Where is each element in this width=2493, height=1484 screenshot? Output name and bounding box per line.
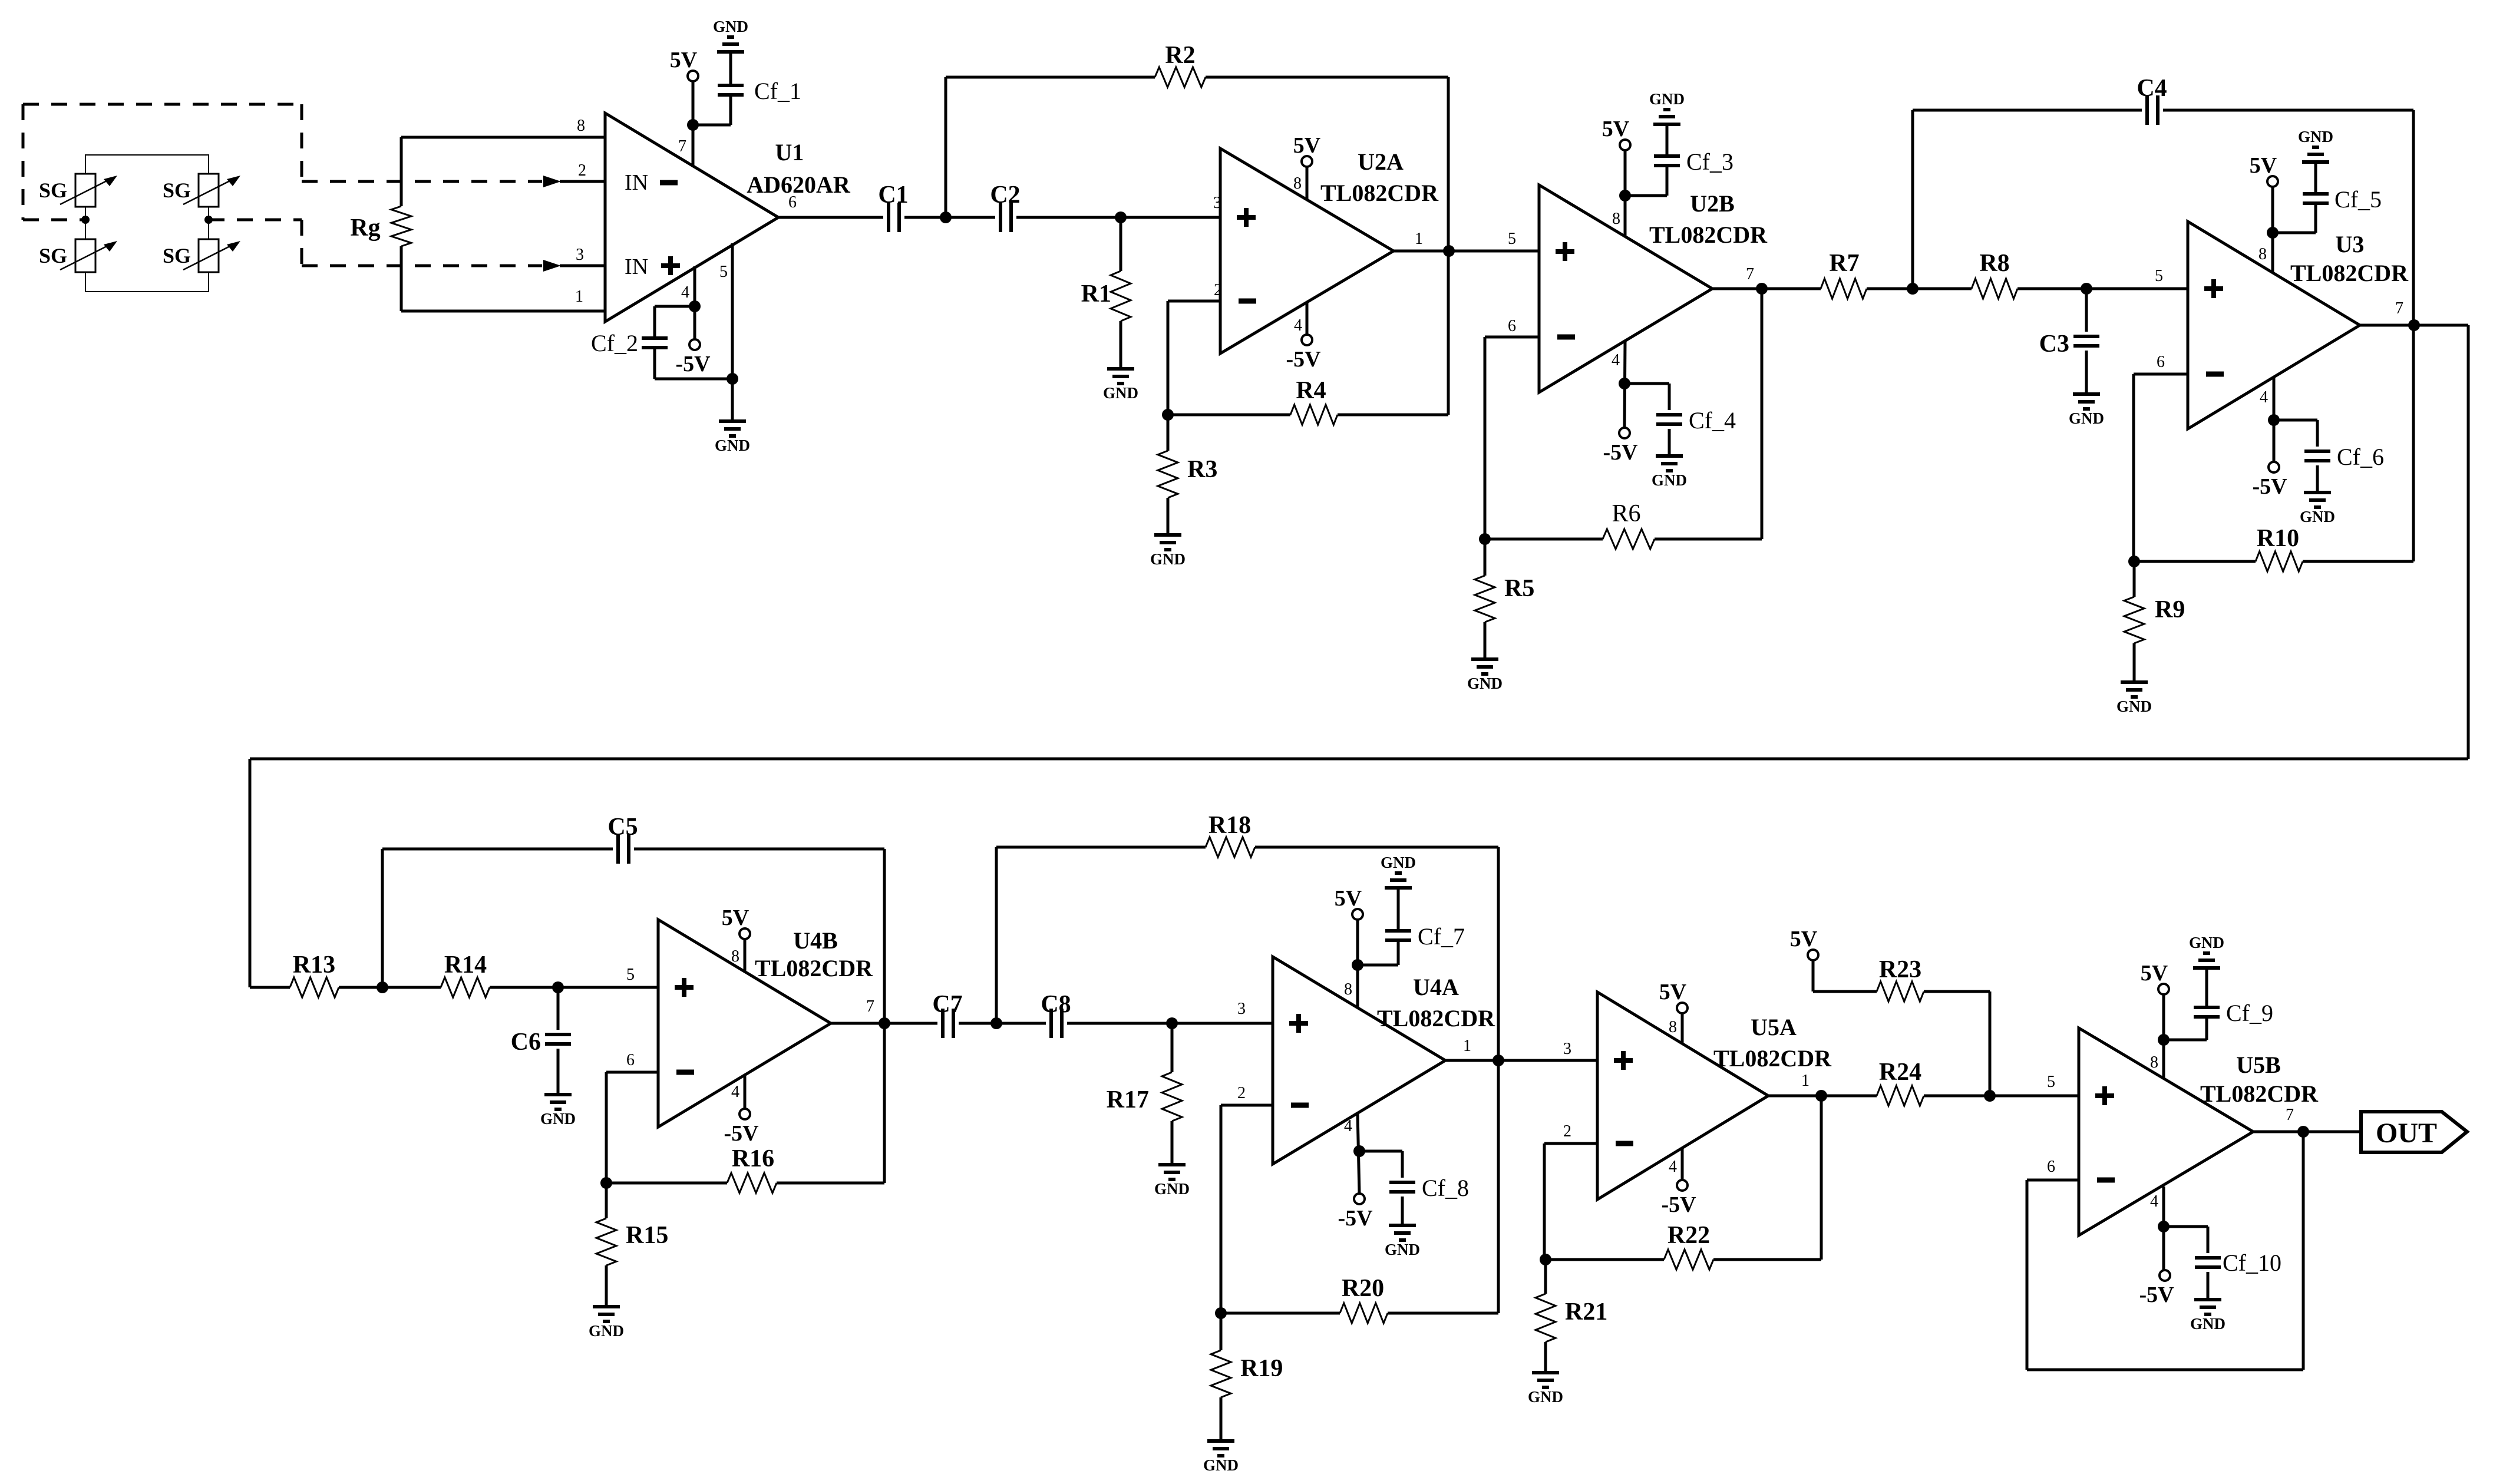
svg-text:R23: R23 [1879, 956, 1921, 983]
pin 1 label [1415, 230, 1423, 248]
-5V supply (U2B) [1603, 428, 1638, 465]
wire (U2A out) [1394, 250, 1539, 253]
svg-text:U5A: U5A [1751, 1014, 1797, 1040]
-5V supply (U1) [675, 339, 711, 376]
resistor R19 [1211, 1313, 1283, 1441]
resistor R17 [1107, 1023, 1182, 1165]
op-amp U4B TL082CDR [658, 920, 873, 1127]
strain gauge SG (bottom-left) [39, 239, 117, 272]
ground (U1) [715, 421, 750, 454]
pin 8 label [2258, 245, 2267, 263]
svg-text:5: 5 [719, 263, 728, 281]
svg-text:5V: 5V [2141, 961, 2168, 986]
node (U2A out) [1443, 245, 1455, 257]
node (U3 V+) [2267, 227, 2279, 239]
svg-text:C1: C1 [878, 181, 908, 209]
wire [558, 986, 658, 989]
svg-text:4: 4 [2150, 1192, 2158, 1211]
pin 8 label [731, 947, 739, 966]
U4B pin 4 wire [744, 1076, 747, 1109]
svg-text:IN: IN [625, 255, 648, 279]
op-amp U4A TL082CDR [1273, 957, 1495, 1164]
svg-text:GND: GND [1649, 90, 1685, 108]
svg-text:R16: R16 [732, 1145, 774, 1172]
svg-text:4: 4 [1294, 316, 1302, 335]
U2A pin 8 wire [1306, 167, 1309, 200]
node (U2B V+) [1619, 190, 1631, 201]
ground (R17) [1154, 1165, 1190, 1198]
svg-text:4: 4 [1344, 1117, 1352, 1135]
svg-text:U4A: U4A [1413, 974, 1459, 1000]
svg-text:GND: GND [1652, 471, 1687, 489]
svg-text:8: 8 [1612, 210, 1620, 228]
pin 6 label [626, 1051, 635, 1069]
node C [1166, 1017, 1178, 1029]
U5B pin 8 wire [2162, 994, 2165, 1079]
node (C3 tap) [2081, 283, 2092, 295]
svg-text:4: 4 [681, 283, 689, 302]
wire (U4A out) [1445, 1059, 1597, 1062]
svg-text:-5V: -5V [1286, 347, 1321, 372]
svg-text:7: 7 [866, 997, 874, 1016]
ground (R19) [1203, 1441, 1239, 1474]
svg-text:8: 8 [731, 947, 739, 966]
node (C5 tap) [377, 981, 388, 993]
pin 2 label [1563, 1122, 1571, 1141]
svg-text:C4: C4 [2137, 75, 2167, 102]
svg-text:GND: GND [1154, 1180, 1190, 1198]
svg-text:GND: GND [1528, 1388, 1563, 1406]
pin 5 label [719, 263, 728, 281]
svg-text:Cf_8: Cf_8 [1422, 1175, 1469, 1201]
svg-text:C8: C8 [1041, 991, 1071, 1018]
svg-text:GND: GND [1385, 1241, 1420, 1258]
pin 4 label [1294, 316, 1302, 335]
svg-text:R24: R24 [1879, 1059, 1921, 1086]
pin 3 label [1237, 1000, 1246, 1018]
svg-text:8: 8 [2150, 1053, 2158, 1072]
wire (U1 out) [778, 216, 883, 219]
svg-text:Cf_6: Cf_6 [2337, 444, 2384, 470]
node (bridge left mid) [81, 216, 90, 224]
-5V supply (U4B) [724, 1109, 759, 1146]
svg-text:AD620AR: AD620AR [747, 171, 851, 198]
resistor R2 [946, 42, 1448, 251]
wire [1990, 1095, 2079, 1098]
node (U4A V-) [1353, 1145, 1365, 1157]
node (U4B out) [879, 1017, 890, 1029]
svg-text:1: 1 [575, 287, 583, 306]
svg-text:5V: 5V [1659, 980, 1687, 1004]
-5V supply (U3) [2252, 462, 2287, 499]
dashed wire IN- with arrow [302, 176, 605, 187]
5V supply (R23) [1790, 927, 1818, 960]
U4B pin 8 wire [744, 939, 747, 971]
pin 4 label [2150, 1192, 2158, 1211]
pin 4 label [1344, 1117, 1352, 1135]
svg-text:R19: R19 [1240, 1355, 1283, 1382]
U2A pin 2 wire [1168, 301, 1220, 415]
svg-text:TL082CDR: TL082CDR [1649, 222, 1768, 248]
svg-text:GND: GND [1467, 675, 1503, 692]
svg-text:Rg: Rg [350, 214, 380, 242]
svg-text:U5B: U5B [2236, 1052, 2281, 1078]
node (U1 V+) [687, 119, 699, 131]
node (U3 V-) [2268, 414, 2280, 426]
svg-text:R6: R6 [1612, 500, 1640, 527]
wire (U1 to ground) [731, 379, 734, 421]
U5A pin 2 wire [1544, 1143, 1597, 1260]
svg-text:R22: R22 [1667, 1222, 1710, 1249]
svg-text:GND: GND [2069, 409, 2104, 427]
pin 8 label [1612, 210, 1620, 228]
pin 8 label [1669, 1018, 1677, 1036]
pin 6 label [2047, 1158, 2055, 1176]
svg-text:Cf_4: Cf_4 [1689, 407, 1736, 434]
pin 2 label [578, 161, 586, 180]
svg-text:Cf_1: Cf_1 [754, 78, 801, 104]
svg-text:5V: 5V [1335, 886, 1362, 911]
svg-text:GND: GND [715, 437, 750, 454]
svg-text:7: 7 [2286, 1106, 2294, 1124]
resistor R21 [1536, 1260, 1607, 1373]
wire (pin 8 loop top) [401, 136, 605, 139]
capacitor C2 [990, 181, 1020, 232]
svg-text:C6: C6 [511, 1029, 541, 1056]
svg-text:U2B: U2B [1690, 190, 1735, 217]
node (R23/R24) [1984, 1090, 1996, 1102]
pin 7 label [2286, 1106, 2294, 1124]
5V supply (U2A) [1293, 133, 1321, 167]
-5V supply (U5B) [2139, 1270, 2174, 1307]
op-amp U5B TL082CDR [2079, 1028, 2319, 1235]
svg-text:8: 8 [2258, 245, 2267, 263]
capacitor C1 [878, 181, 908, 232]
pin 7 label [2395, 299, 2403, 318]
node (U2B V-) [1619, 378, 1630, 389]
svg-text:Cf_2: Cf_2 [591, 330, 638, 356]
svg-text:Cf_5: Cf_5 [2334, 186, 2382, 213]
resistor R23 [1813, 956, 1990, 1096]
svg-text:2: 2 [1214, 281, 1222, 299]
wire (U4B out) [831, 1022, 937, 1025]
wire (U3 out to row 2) [250, 325, 2468, 987]
capacitor Cf_1 [718, 78, 801, 104]
U2B pin 4 wire [1624, 342, 1625, 428]
pin 6 label [2157, 353, 2165, 371]
ground (Cf_4) [1652, 456, 1687, 489]
svg-text:4: 4 [731, 1083, 739, 1101]
capacitor C8 [1041, 991, 1071, 1038]
capacitor Cf_3 [1625, 124, 1733, 196]
resistor R5 [1475, 539, 1534, 659]
svg-text:TL082CDR: TL082CDR [2200, 1080, 2319, 1107]
node (U1 pin4) [689, 300, 701, 312]
U2A pin 4 wire [1306, 302, 1309, 335]
resistor R10 [2134, 325, 2413, 571]
node (C6 tap) [552, 981, 564, 993]
pin 1 label [1801, 1072, 1810, 1090]
svg-text:4: 4 [2260, 388, 2268, 406]
resistor R3 [1158, 415, 1217, 535]
svg-text:SG: SG [39, 179, 67, 202]
U5B pin 6 wire [2027, 1132, 2303, 1370]
ground (C3) [2069, 394, 2104, 427]
svg-text:8: 8 [1344, 980, 1352, 999]
svg-text:U1: U1 [775, 139, 804, 166]
-5V supply (U5A) [1661, 1180, 1696, 1217]
svg-text:U3: U3 [2336, 231, 2365, 257]
dashed wire IN+ with arrow [302, 260, 605, 272]
wire [2086, 287, 2188, 290]
5V supply (U3) [2250, 153, 2278, 187]
wire (pin 1 loop bottom) [401, 310, 605, 313]
strain gauge SG (top-left) [39, 174, 117, 207]
wire (to OUT) [2253, 1131, 2361, 1133]
svg-text:TL082CDR: TL082CDR [1320, 180, 1439, 206]
U4B pin 6 wire [606, 1072, 658, 1183]
5V supply (U5A) [1659, 980, 1688, 1013]
5V supply (U5B) [2141, 961, 2169, 994]
pin 7 label [678, 137, 686, 156]
capacitor Cf_7 [1358, 888, 1465, 965]
capacitor Cf_6 [2274, 420, 2384, 493]
svg-text:R8: R8 [1979, 250, 2009, 277]
U1 pin 7 wire [692, 76, 695, 167]
wire (U2B out) [1712, 287, 1821, 290]
U3 pin 4 wire [2273, 377, 2276, 462]
U2B pin 6 wire [1485, 337, 1539, 539]
svg-text:GND: GND [540, 1110, 576, 1128]
resistor R14 [382, 951, 558, 997]
op-amp U2A TL082CDR [1220, 148, 1439, 353]
svg-text:R20: R20 [1342, 1275, 1384, 1302]
pin 4 label [681, 283, 689, 302]
node (R19/R20) [1215, 1307, 1227, 1319]
resistor R22 [1546, 1222, 1821, 1270]
pin 3 label [1213, 194, 1221, 212]
capacitor Cf_10 [2164, 1227, 2281, 1300]
svg-text:2: 2 [578, 161, 586, 180]
resistor R4 [1168, 251, 1448, 425]
-5V supply (U2A) [1286, 335, 1321, 372]
U5A pin 4 wire [1681, 1148, 1684, 1180]
svg-text:R7: R7 [1829, 250, 1859, 277]
svg-text:6: 6 [626, 1051, 635, 1069]
bridge frame [85, 155, 209, 292]
svg-text:8: 8 [1293, 174, 1302, 193]
svg-text:1: 1 [1415, 230, 1423, 248]
OUT port flag [2361, 1112, 2467, 1152]
U4A pin 4 wire [1358, 1113, 1359, 1194]
node (R15/R16) [600, 1177, 612, 1189]
pin 8 label [1293, 174, 1302, 193]
svg-text:5V: 5V [1790, 927, 1818, 951]
strain gauge SG (top-right) [163, 174, 240, 207]
svg-text:2: 2 [1563, 1122, 1571, 1141]
ground (Cf_6) [2300, 493, 2335, 525]
capacitor Cf_4 [1624, 384, 1736, 456]
ground (Cf_5) [2298, 128, 2333, 162]
svg-text:-5V: -5V [1338, 1206, 1373, 1231]
svg-text:6: 6 [788, 193, 797, 211]
node (R9/R10) [2128, 556, 2140, 567]
svg-text:TL082CDR: TL082CDR [1713, 1045, 1832, 1072]
ground (R15) [589, 1307, 624, 1340]
resistor R13 [250, 951, 382, 997]
ground (R1) [1103, 369, 1138, 402]
wire (to Cf_1) [693, 52, 731, 125]
svg-text:5V: 5V [722, 905, 749, 930]
capacitor Cf_8 [1359, 1151, 1469, 1225]
svg-text:7: 7 [1746, 265, 1754, 283]
node A [940, 211, 952, 223]
pin 4 label [1612, 351, 1620, 369]
svg-text:-5V: -5V [675, 352, 711, 376]
svg-text:R3: R3 [1187, 456, 1217, 483]
resistor Rg [350, 137, 411, 311]
svg-text:U2A: U2A [1358, 148, 1404, 175]
svg-text:R9: R9 [2155, 596, 2185, 623]
svg-text:GND: GND [2300, 508, 2335, 525]
op-amp U5A TL082CDR [1597, 992, 1832, 1199]
node (U5B out) [2297, 1126, 2309, 1138]
ground (Cf_10) [2190, 1300, 2225, 1333]
svg-text:-5V: -5V [1603, 440, 1638, 465]
pin 3 label [1563, 1040, 1571, 1058]
svg-text:5V: 5V [670, 48, 698, 72]
capacitor C4 [1913, 75, 2413, 325]
svg-text:R10: R10 [2257, 525, 2299, 552]
pin 4 label [1669, 1158, 1677, 1176]
resistor R18 [996, 812, 1498, 1060]
svg-text:C3: C3 [2039, 330, 2069, 358]
svg-text:SG: SG [163, 179, 191, 202]
svg-text:R4: R4 [1296, 377, 1326, 404]
5V supply (U4A) [1335, 886, 1363, 920]
ground (C6) [540, 1095, 576, 1128]
svg-text:IN: IN [625, 170, 648, 195]
svg-text:R14: R14 [444, 951, 487, 979]
svg-text:6: 6 [2047, 1158, 2055, 1176]
U3 pin 8 wire [2271, 187, 2274, 273]
pin 3 label [576, 246, 584, 264]
U5B pin 4 wire [2162, 1186, 2165, 1270]
svg-text:U4B: U4B [793, 927, 838, 954]
wire [959, 1022, 1046, 1025]
pin 2 label [1214, 281, 1222, 299]
pin 5 label [2047, 1073, 2055, 1091]
pin 2 label [1237, 1084, 1246, 1102]
svg-text:3: 3 [1563, 1040, 1571, 1058]
resistor R7 [1821, 250, 1913, 299]
svg-text:5V: 5V [2250, 153, 2277, 178]
svg-text:R5: R5 [1504, 575, 1534, 602]
op-amp U3 TL082CDR [2188, 222, 2409, 429]
svg-text:4: 4 [1669, 1158, 1677, 1176]
pin 7 label [1746, 265, 1754, 283]
capacitor C6 [511, 987, 571, 1095]
resistor R8 [1913, 250, 2086, 299]
svg-text:R17: R17 [1107, 1086, 1149, 1113]
pin 1 label [1463, 1037, 1471, 1055]
wire [1067, 1022, 1273, 1025]
op-amp U1 AD620AR [605, 113, 851, 322]
svg-text:R21: R21 [1565, 1298, 1607, 1326]
resistor R15 [596, 1183, 668, 1307]
node (C4 tap) [1907, 283, 1919, 295]
U1 pin 5 wire [731, 243, 734, 379]
svg-text:5: 5 [2047, 1073, 2055, 1091]
svg-text:TL082CDR: TL082CDR [1377, 1005, 1495, 1032]
svg-text:8: 8 [577, 117, 585, 135]
svg-text:R18: R18 [1208, 812, 1251, 839]
ground (Cf_3) [1649, 90, 1685, 124]
node (U4A out) [1493, 1055, 1504, 1066]
svg-text:6: 6 [1508, 317, 1516, 335]
svg-text:GND: GND [1203, 1456, 1239, 1474]
wire [1016, 216, 1220, 219]
U2B pin 8 wire [1624, 150, 1627, 237]
node (bridge right mid) [204, 216, 213, 224]
svg-text:R15: R15 [626, 1222, 668, 1249]
svg-text:5V: 5V [1293, 133, 1321, 158]
svg-text:GND: GND [1381, 854, 1416, 871]
node (R3/R4) [1162, 409, 1174, 421]
svg-text:GND: GND [2116, 698, 2152, 715]
U5A pin 8 wire [1681, 1013, 1684, 1043]
pin 6 label [788, 193, 797, 211]
svg-text:R1: R1 [1081, 280, 1111, 308]
svg-text:5: 5 [1508, 230, 1516, 248]
svg-text:4: 4 [1612, 351, 1620, 369]
svg-text:GND: GND [713, 18, 748, 35]
node (U5B V+) [2158, 1034, 2170, 1046]
resistor R6 [1485, 289, 1762, 549]
node (U1 ground) [727, 373, 738, 385]
svg-text:3: 3 [1237, 1000, 1246, 1018]
ground (R21) [1528, 1373, 1563, 1406]
svg-text:-5V: -5V [2252, 474, 2287, 499]
svg-text:SG: SG [39, 244, 67, 267]
svg-text:R13: R13 [293, 951, 335, 979]
svg-text:R2: R2 [1165, 42, 1195, 69]
svg-text:GND: GND [1150, 550, 1186, 568]
capacitor C7 [932, 991, 962, 1038]
pin 6 label [1508, 317, 1516, 335]
svg-text:Cf_3: Cf_3 [1686, 148, 1733, 175]
svg-text:3: 3 [576, 246, 584, 264]
svg-text:5V: 5V [1602, 117, 1630, 141]
pin 5 label [2155, 267, 2163, 285]
ground (Cf_1) [713, 18, 748, 52]
pin 7 label [866, 997, 874, 1016]
svg-text:6: 6 [2157, 353, 2165, 371]
pin 8 label [577, 117, 585, 135]
svg-text:Cf_7: Cf_7 [1418, 923, 1465, 950]
svg-text:1: 1 [1463, 1037, 1471, 1055]
svg-text:5: 5 [2155, 267, 2163, 285]
node (R21/R22) [1540, 1254, 1551, 1265]
resistor R24 [1821, 1059, 1990, 1106]
resistor R16 [606, 1023, 884, 1193]
wire (U5A out fb) [1768, 1096, 1821, 1260]
pin 4 label [731, 1083, 739, 1101]
svg-text:Cf_10: Cf_10 [2223, 1250, 2281, 1276]
pin 8 label [2150, 1053, 2158, 1072]
node (U2B out) [1756, 283, 1768, 295]
node (U4A V+) [1352, 959, 1363, 971]
